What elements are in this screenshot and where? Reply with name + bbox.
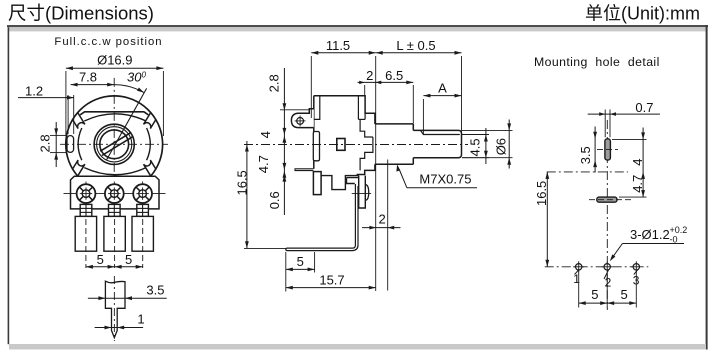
pot body outer circle (front view): [66, 96, 163, 176]
svg-text:11.5: 11.5: [326, 38, 350, 53]
30 deg dimension arc: [114, 85, 144, 93]
svg-text:4: 4: [258, 131, 273, 138]
terminal leg at x=85.9: [75, 216, 96, 251]
threaded bushing M7: [357, 124, 414, 175]
body notch lower-right: [144, 160, 156, 176]
terminal leg at x=142.7: [132, 216, 153, 251]
pcb stop tab (0.6 thick): [295, 169, 313, 171]
svg-text:A: A: [438, 80, 447, 95]
left cover seam: [314, 96, 320, 119]
full ccw indicator line at 30 deg: [106, 88, 146, 160]
mounting lug with hole: [291, 109, 313, 128]
holes centerline: [545, 266, 649, 268]
frame top dark line: [7, 25, 708, 27]
extension line x=311.3 (11.5 left): [310, 56, 312, 118]
svg-text:3-Ø1.2: 3-Ø1.2: [630, 227, 670, 242]
svg-text:2.8: 2.8: [267, 74, 282, 92]
svg-text:L ± 0.5: L ± 0.5: [396, 38, 435, 53]
body notch upper-right: [144, 113, 156, 129]
terminal lug circle at x=86.0: [85, 182, 87, 207]
shaft bore circle: [100, 130, 129, 159]
5 / 5 leg pitch dimensions (front): [86, 266, 143, 268]
svg-text:Ø16.9: Ø16.9: [97, 53, 132, 68]
svg-text:4.5: 4.5: [467, 138, 482, 156]
bent pcb pin: [286, 184, 358, 251]
svg-text:2.8: 2.8: [38, 134, 53, 152]
side view horizontal centerline: [244, 144, 468, 146]
svg-text:0.7: 0.7: [635, 100, 653, 115]
internal step upper right: [360, 119, 373, 137]
svg-text:4.7: 4.7: [630, 175, 645, 193]
mounting hole 1: [576, 264, 582, 270]
keyway slot at left edge: [67, 136, 74, 153]
svg-text:1: 1: [137, 312, 144, 327]
screwdriver slot lines: [100, 133, 130, 152]
svg-text:4: 4: [630, 159, 645, 166]
16.5 dimension (side): [246, 141, 248, 249]
center hole marker rect: [337, 139, 345, 151]
svg-text:16.5: 16.5: [234, 170, 249, 195]
svg-text:3.5: 3.5: [578, 146, 593, 164]
front view vertical centerline: [113, 78, 115, 178]
svg-text:6.5: 6.5: [385, 68, 403, 83]
mounting hole 3: [633, 264, 639, 270]
svg-text:1.2: 1.2: [25, 84, 43, 99]
svg-text:2: 2: [366, 68, 373, 83]
svg-text:4.7: 4.7: [256, 155, 271, 173]
terminal centerline horizontal: [64, 193, 166, 195]
svg-text:0.6: 0.6: [267, 191, 282, 209]
terminal clamp screw at x=86.0: [80, 204, 92, 216]
terminal lug circle at x=114.3: [113, 182, 115, 207]
anti-rotation slot (vertical, 0.7 wide): [605, 139, 611, 160]
body notch upper-left: [73, 113, 85, 129]
center boss: [360, 137, 373, 170]
terminal pin detail: [105, 281, 125, 337]
svg-text:单位(Unit):mm: 单位(Unit):mm: [585, 4, 700, 24]
svg-text:5: 5: [620, 287, 627, 302]
shaft hub inner ring: [97, 127, 132, 162]
svg-text:5: 5: [297, 254, 304, 269]
terminal leg at x=114.6: [104, 216, 125, 251]
frame bottom gray band: [9, 344, 706, 350]
svg-text:7.8: 7.8: [79, 69, 97, 84]
case internal seam: [357, 96, 359, 120]
shaft: [413, 130, 461, 157]
side view: case outline: [314, 96, 375, 124]
svg-text:16.5: 16.5: [534, 181, 549, 206]
pin end extension line: [244, 247, 287, 249]
rivet on rear leg: [365, 185, 368, 201]
svg-text:M7X0.75: M7X0.75: [419, 172, 471, 187]
case left edge: [313, 96, 315, 169]
svg-text:3.5: 3.5: [146, 282, 164, 297]
frame top gray band: [9, 27, 706, 31]
svg-text:2: 2: [605, 275, 612, 289]
front view horizontal centerline: [60, 143, 168, 145]
frame right dark line: [706, 25, 708, 350]
5 / 5 hole pitch dimensions (mount): [578, 271, 580, 308]
dia 6 shaft dimension: [462, 129, 513, 131]
svg-text:5: 5: [591, 287, 598, 302]
body notch lower-left: [73, 160, 85, 176]
svg-text:15.7: 15.7: [319, 272, 344, 287]
terminal clamp screw at x=142.6: [137, 204, 149, 216]
svg-text:Full.c.c.w position: Full.c.c.w position: [54, 36, 162, 48]
svg-text:5: 5: [97, 252, 104, 267]
shaft flat line: [421, 130, 460, 134]
extension line x=461.5 (shaft end): [461, 56, 463, 133]
svg-text:尺寸(Dimensions): 尺寸(Dimensions): [8, 3, 154, 24]
mounting view horizontal centerline: [547, 171, 628, 173]
left dimension stack line: [283, 68, 285, 215]
15.7 dimension: [286, 287, 376, 289]
pot face outline arcs: [84, 114, 146, 121]
svg-text:+0.2: +0.2: [670, 225, 688, 235]
case bottom edge: [321, 176, 359, 190]
keyway key (side view): [313, 132, 319, 161]
svg-text:Ø6: Ø6: [494, 138, 509, 155]
extension line x=375.7 (bushing face, long): [375, 56, 377, 291]
terminal block: [71, 176, 160, 209]
frame left dark line: [8, 27, 10, 344]
svg-text:Mounting hole detail: Mounting hole detail: [534, 55, 660, 69]
svg-text:5: 5: [125, 252, 132, 267]
svg-text:2: 2: [379, 212, 386, 227]
front foot: [313, 172, 321, 195]
rear terminal leg: [359, 176, 366, 208]
terminal slot (horizontal): [597, 197, 617, 202]
mounting hole 2: [604, 264, 610, 270]
shaft hub outer circle: [94, 124, 134, 164]
pot face top flat chord: [80, 112, 148, 115]
4.5 dimension (shaft flat): [462, 134, 489, 136]
terminal lug circle at x=142.6: [142, 182, 144, 207]
mounting view vertical centerline: [606, 120, 608, 310]
terminal clamp screw at x=114.3: [109, 204, 121, 216]
5 dimension (side bottom): [285, 252, 287, 292]
